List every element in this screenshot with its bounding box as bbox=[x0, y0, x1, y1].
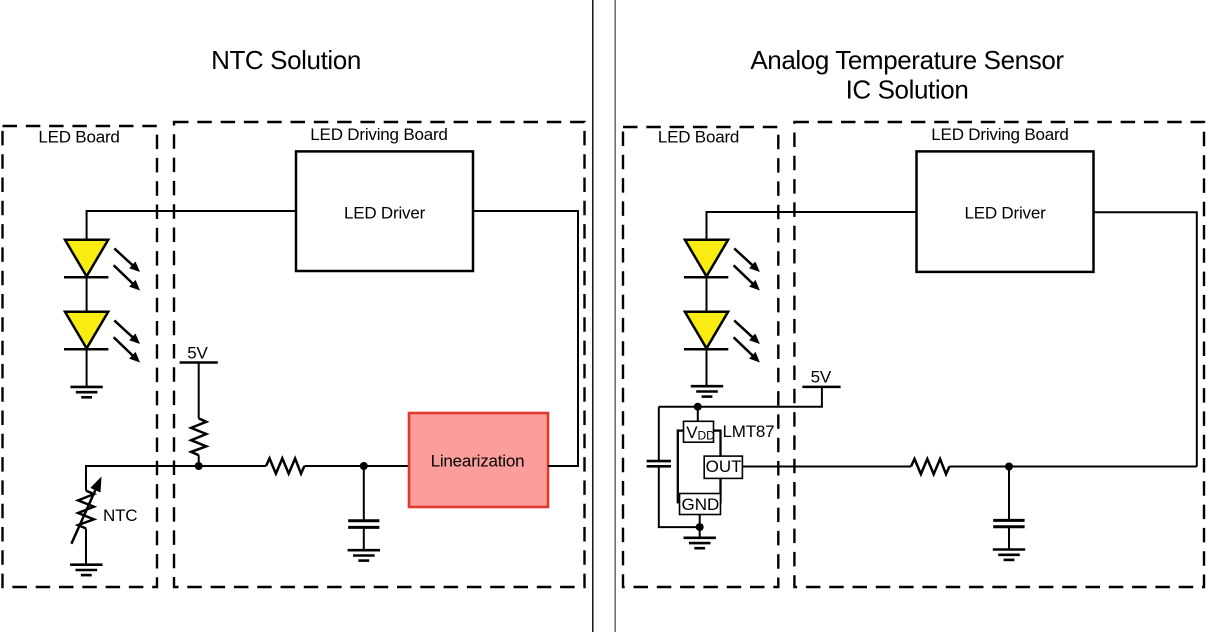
wire D2 to ground bbox=[86, 349, 88, 387]
svg-text:LED Board: LED Board bbox=[38, 128, 119, 147]
wire C3 to ground bbox=[1008, 527, 1010, 550]
resistor R3 (horizontal) bbox=[911, 459, 949, 474]
wire R1 to node bbox=[198, 455, 200, 466]
ground (C1) bbox=[348, 550, 380, 560]
svg-text:OUT: OUT bbox=[706, 457, 742, 476]
svg-text:LED Driver: LED Driver bbox=[964, 203, 1046, 222]
VDD pin box bbox=[684, 421, 714, 442]
LED Driving Board dashed box (left) bbox=[174, 122, 585, 587]
wire D3 to D4 bbox=[706, 277, 708, 312]
LED D3 bbox=[684, 240, 760, 291]
ground (LED string left) bbox=[70, 387, 102, 397]
capacitor C3 plates bbox=[993, 519, 1024, 522]
wire: driver left to LED string top (right) bbox=[707, 212, 917, 240]
svg-text:5V: 5V bbox=[187, 344, 208, 363]
wire OUT to resistor R3 bbox=[742, 466, 911, 468]
junction node dot (filter cap right) bbox=[1005, 463, 1013, 471]
svg-text:LED Driver: LED Driver bbox=[344, 203, 426, 222]
wire node to ground symbol bbox=[699, 527, 701, 538]
svg-text:LED Driving Board: LED Driving Board bbox=[931, 125, 1068, 144]
LED Driving Board dashed box (right) bbox=[794, 122, 1204, 587]
wire up right edge to driver bbox=[1094, 212, 1197, 466]
wire node to capacitor C1 bbox=[363, 466, 365, 521]
ground (LED string right) bbox=[691, 386, 723, 396]
LED Driver box U1 bbox=[296, 151, 473, 271]
svg-text:NTC: NTC bbox=[103, 506, 137, 525]
junction node dot (R1 / NTC) bbox=[195, 462, 203, 470]
ground (LMT87) bbox=[684, 538, 716, 548]
OUT pin box bbox=[704, 456, 742, 478]
svg-text:LED Driving Board: LED Driving Board bbox=[310, 125, 447, 144]
capacitor C2 plates bbox=[647, 460, 671, 463]
wire C2 bottom to GND rail bbox=[659, 466, 700, 527]
svg-text:Analog Temperature Sensor: Analog Temperature Sensor bbox=[750, 45, 1064, 75]
GND pin box bbox=[680, 494, 721, 515]
5V bar (left) bbox=[180, 361, 218, 364]
svg-text:5V: 5V bbox=[811, 368, 832, 387]
junction node dot (VDD feed) bbox=[694, 403, 702, 411]
wire node down to VDD pin bbox=[697, 407, 699, 422]
NTC zigzag bbox=[78, 491, 94, 529]
LED D4 bbox=[684, 312, 760, 363]
wire Linearization output up to LED Driver right bbox=[473, 211, 578, 466]
vertical divider line (grey) bbox=[614, 0, 616, 632]
resistor R1 (pull-up, vertical) bbox=[191, 418, 206, 455]
svg-text:GND: GND bbox=[682, 495, 720, 514]
wire: driver left to LED string top bbox=[87, 211, 296, 240]
svg-text:LED Board: LED Board bbox=[658, 128, 739, 147]
LED D1 bbox=[64, 240, 140, 291]
ground (C3) bbox=[993, 550, 1025, 560]
wire 5V bar to resistor R1 bbox=[198, 363, 200, 419]
LED D2 bbox=[64, 312, 140, 363]
NTC diagonal arrow bbox=[71, 483, 98, 543]
wire C1 to ground bbox=[363, 527, 365, 550]
wire R3 to right edge bbox=[949, 466, 1196, 468]
svg-text:NTC Solution: NTC Solution bbox=[211, 45, 361, 75]
LED Driver box U2 bbox=[917, 151, 1094, 272]
5V bar (right) bbox=[802, 386, 840, 389]
resistor R2 (horizontal) bbox=[266, 458, 304, 473]
main horizontal wire y=466 (left) bbox=[86, 465, 266, 467]
LED Board dashed box (left) bbox=[3, 126, 158, 587]
svg-text:LMT87: LMT87 bbox=[723, 422, 775, 441]
svg-text:DD: DD bbox=[698, 428, 716, 442]
junction node dot (GND) bbox=[696, 523, 704, 531]
Linearization block bbox=[409, 413, 548, 507]
ground (NTC) bbox=[70, 565, 102, 575]
junction node dot (filter cap left) bbox=[360, 462, 368, 470]
NTC thermistor RT1: top wire bbox=[85, 465, 87, 491]
wire node to capacitor C3 bbox=[1008, 467, 1010, 521]
svg-text:Linearization: Linearization bbox=[431, 451, 525, 470]
svg-text:IC Solution: IC Solution bbox=[846, 75, 969, 105]
LMT87 body U3 bbox=[678, 431, 721, 503]
wire R2 to Linearization bbox=[304, 465, 409, 467]
wire D1 to D2 bbox=[86, 277, 88, 312]
vertical divider line (black) bbox=[592, 0, 594, 632]
bypass capacitor C2: left drop wire bbox=[658, 407, 660, 461]
capacitor C1 plates bbox=[348, 519, 379, 522]
wire GND pin to ground node bbox=[699, 515, 701, 528]
LED Board dashed box (right) bbox=[623, 127, 778, 587]
wire 5V down and left to VDD node bbox=[659, 387, 822, 407]
wire D4 to ground bbox=[706, 349, 708, 386]
wire NTC to ground bbox=[85, 529, 87, 566]
svg-text:V: V bbox=[686, 423, 698, 442]
